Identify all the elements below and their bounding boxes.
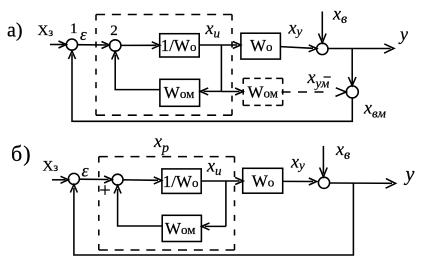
wire Wom output up into node2 b [114, 185, 162, 226]
dashed controller box a [96, 15, 232, 116]
wire node 3 to output y [328, 44, 394, 53]
summing node 3 b [318, 177, 329, 188]
svg-text:Wом: Wом [165, 219, 196, 238]
block Wom b [162, 215, 201, 241]
svg-text:1: 1 [70, 21, 78, 37]
wire xu tap down b [225, 181, 227, 226]
svg-text:2: 2 [110, 23, 118, 39]
wire node1 to node2 [78, 42, 110, 49]
summing node 2 [110, 40, 121, 51]
summing node 2 b [112, 174, 123, 185]
block Wo a [241, 33, 281, 59]
wire node1 to node2 b [79, 176, 112, 183]
wire input to node 1 b [52, 176, 68, 183]
wire Wo to node 3 b [283, 178, 317, 185]
summing node 1 b [68, 173, 79, 184]
svg-text:Wо: Wо [252, 171, 275, 190]
block 1/Wo b [162, 169, 201, 194]
dashed controller box b [99, 157, 235, 250]
svg-text:Wом: Wом [164, 83, 195, 102]
block Wom a solid [160, 79, 200, 106]
wire Wo to node 3 [280, 45, 316, 52]
svg-text:а): а) [7, 20, 23, 42]
svg-text:1/Wо: 1/Wо [163, 172, 199, 191]
wire xv arrow down into node 3 b [320, 146, 328, 177]
wire tap to Wom (arrow left) [200, 88, 221, 95]
wire xv arrow down into node 3 [319, 12, 327, 43]
wire xu tap down [220, 45, 222, 91]
wire branch y down to node 4 [348, 49, 356, 86]
wire node2 to 1/Wo b [123, 177, 162, 184]
feedback wire bottom b [70, 183, 353, 255]
svg-text:y: y [404, 163, 415, 185]
svg-text:б): б) [11, 141, 32, 166]
wire node 3 to output y b [330, 179, 396, 189]
svg-text:+: + [99, 180, 110, 202]
svg-text:y: y [398, 24, 408, 44]
svg-text:Хз: Хз [43, 158, 59, 174]
wire tap to Wom b (arrow left) [202, 223, 226, 230]
wire 1/Wo to Wo with node xu [199, 42, 241, 49]
svg-text:Wо: Wо [250, 36, 273, 55]
wire input to node 1 [50, 41, 66, 48]
dashed wire Wom model to node 4 [282, 88, 347, 97]
wire Wom output up into node2 [112, 52, 160, 90]
wire 1/Wo to Wo b with xu tap [201, 178, 243, 185]
summing node 3 (output sum) [317, 43, 328, 54]
dashed block Wom model [243, 78, 283, 105]
svg-text:1/Wо: 1/Wо [161, 36, 197, 55]
wire tap to dashed Wom (arrow right) [221, 88, 243, 95]
svg-text:Wом: Wом [248, 83, 279, 102]
svg-text:ε: ε [82, 160, 90, 180]
summing node 1 [66, 39, 77, 50]
label xum with overline [307, 67, 331, 91]
summing node 4 (model output sum) [346, 86, 358, 98]
svg-text:Хз: Хз [38, 23, 54, 39]
feedback wire node4 to node1 bottom [69, 51, 353, 121]
block Wo b [243, 168, 283, 193]
svg-text:ε: ε [80, 25, 87, 44]
wire node2 to 1/Wo [121, 42, 160, 49]
block 1/Wo a [160, 34, 200, 57]
